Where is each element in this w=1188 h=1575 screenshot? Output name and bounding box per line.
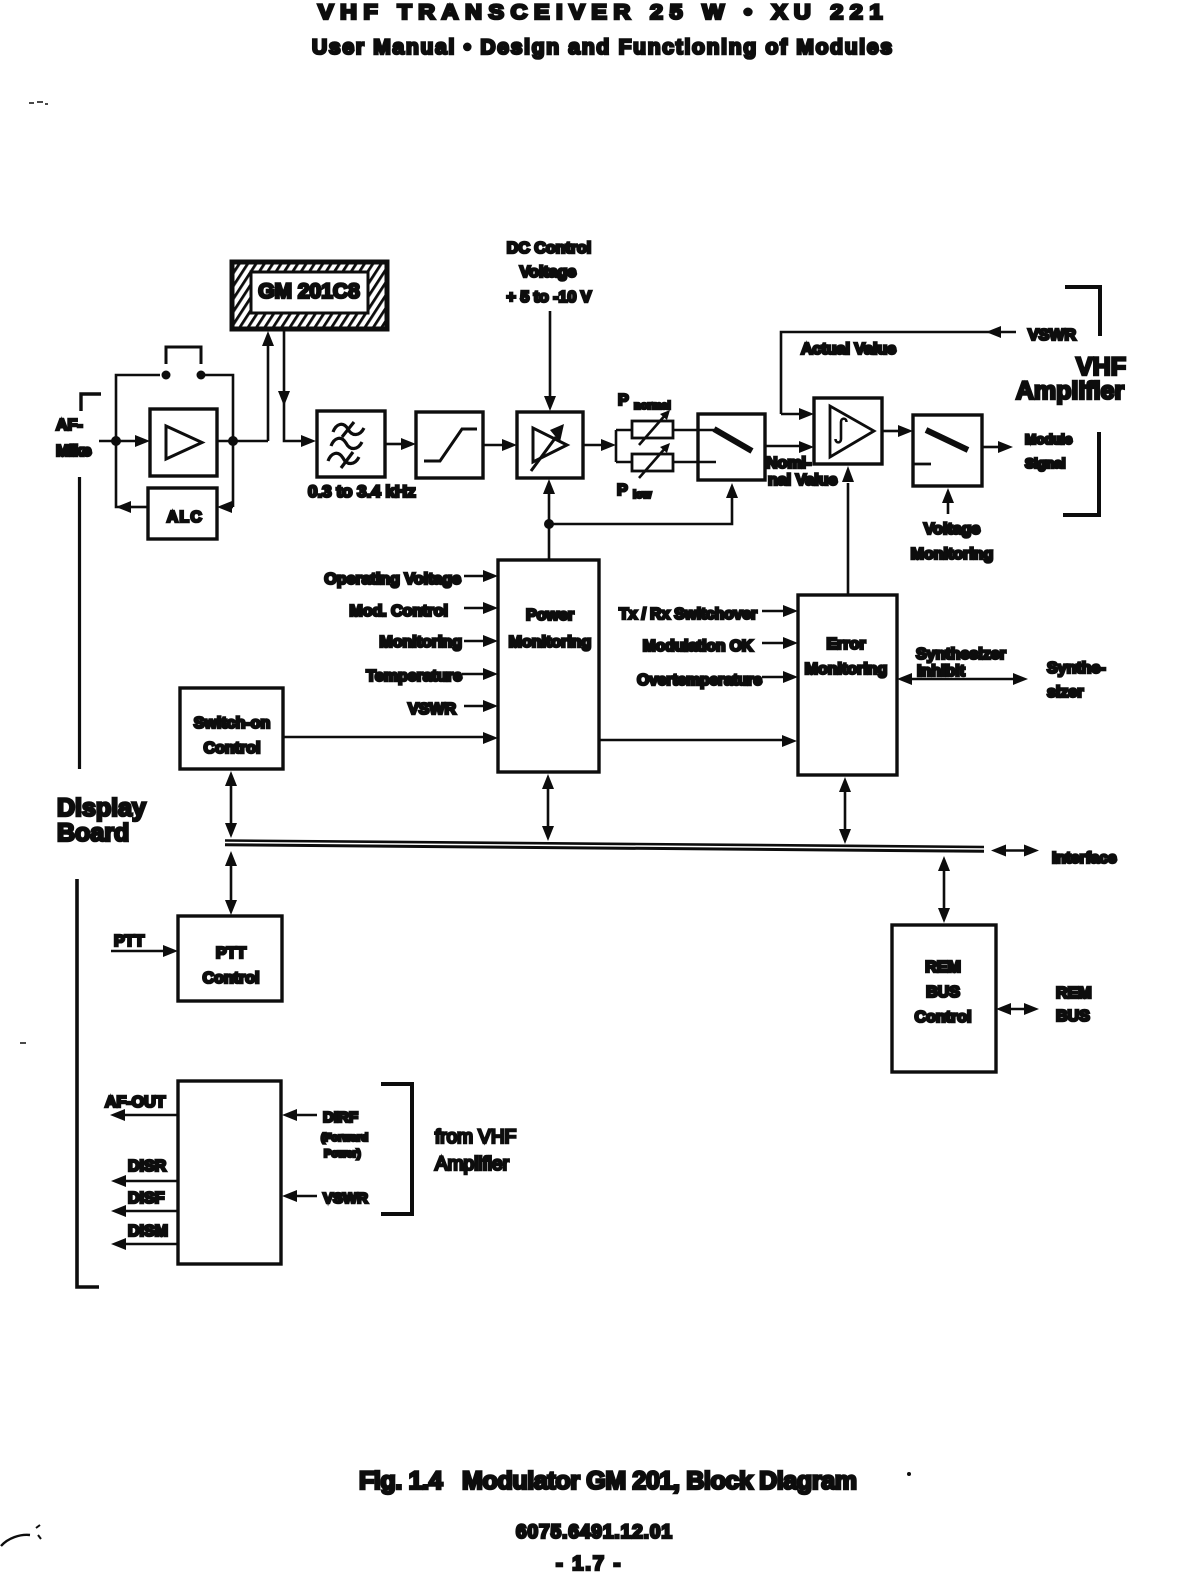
speck left middle [20, 1042, 26, 1044]
speck bottom left pen mark [1, 1525, 41, 1546]
svg-text:REM: REM [1056, 985, 1092, 1002]
figure caption [359, 1467, 857, 1495]
svg-text:Monitoring: Monitoring [509, 634, 592, 651]
svg-text:Overtemperature: Overtemperature [637, 672, 762, 689]
label DISM with arrow [111, 1223, 178, 1250]
wire GM 201C8 down to filter with down arrow [278, 331, 316, 447]
svg-text:- 1.7 -: - 1.7 - [556, 1553, 622, 1575]
wire ALC output back to input with arrow [116, 441, 147, 513]
svg-text:Amplifier: Amplifier [1016, 377, 1125, 405]
label Modulation OK with arrow [643, 637, 798, 655]
label Synthesizer right [1047, 660, 1106, 701]
label Module Signal [1025, 432, 1073, 471]
error monitoring block [798, 595, 897, 775]
label DISR with arrow [111, 1158, 178, 1187]
label Temperature with arrow [366, 668, 498, 685]
label Operating Voltage with arrow [324, 570, 498, 588]
from VHF amplifier bracket [381, 1084, 412, 1214]
svg-text:Mod. Control: Mod. Control [349, 603, 448, 620]
wire DC control into modulator top with arrow [544, 311, 556, 411]
svg-text:AF-OUT: AF-OUT [105, 1094, 166, 1111]
svg-text:DISM: DISM [128, 1223, 168, 1240]
bypass switch right wire [201, 375, 233, 441]
wire power monitoring up into modulator bottom with arrow [543, 479, 555, 524]
svg-text:Control: Control [915, 1009, 972, 1026]
label VSWR top [1028, 327, 1076, 344]
svg-text:Monitoring: Monitoring [805, 661, 888, 678]
bus line lower [225, 845, 984, 852]
svg-text:ALC: ALC [167, 509, 203, 526]
AF-OUT interface block [178, 1081, 281, 1264]
svg-text:Temperature: Temperature [366, 668, 462, 685]
label AF-OUT with arrow [105, 1094, 178, 1121]
svg-text:P: P [617, 482, 628, 499]
label VSWR with arrow [408, 700, 498, 718]
wire P low stub into switch 1 [673, 461, 716, 464]
bypass switch left wire [116, 375, 160, 441]
wire junction down to power monitoring top [548, 524, 551, 560]
resistor P low [632, 443, 673, 478]
svg-text:Amplifier: Amplifier [435, 1154, 510, 1175]
svg-text:Switch-on: Switch-on [194, 715, 270, 732]
label DISF with arrow [111, 1190, 178, 1217]
svg-text:BUS: BUS [1056, 1008, 1090, 1025]
wire power monitoring to error monitoring with arrow [599, 735, 797, 747]
svg-text:DC Control: DC Control [507, 240, 591, 257]
label DIRF (Forward Power) [321, 1109, 368, 1160]
svg-text:BUS: BUS [926, 984, 960, 1001]
wire amplifier output [217, 440, 268, 443]
wire VSWR actual value feedback with arrow [781, 326, 1016, 414]
double arrow error monitoring to bus [839, 777, 851, 844]
svg-text:DIRF: DIRF [323, 1109, 358, 1126]
svg-text:Voltage: Voltage [924, 521, 981, 538]
svg-text:DISF: DISF [128, 1190, 165, 1207]
variable modulator block [517, 412, 583, 478]
svg-text:Fig. 1.4 Modulator GM 201, B: Fig. 1.4 Modulator GM 201, Block Diagram [359, 1467, 857, 1495]
svg-text:Mike: Mike [56, 443, 92, 460]
svg-text:Inhibit: Inhibit [917, 663, 966, 680]
label from VHF Amplifier [435, 1127, 516, 1175]
wire voltage monitoring up into switch 2 with arrow [942, 488, 954, 514]
AF input corner bracket [81, 394, 101, 411]
double arrow power monitoring to bus [542, 774, 554, 841]
label Display Board [57, 794, 146, 847]
double arrow switch-on control to bus [225, 771, 237, 838]
svg-text:DISR: DISR [128, 1158, 167, 1175]
svg-text:P: P [618, 392, 629, 409]
svg-text:Power): Power) [324, 1148, 361, 1160]
label PTT [114, 933, 144, 950]
wire PTT into PTT control with arrow [111, 945, 178, 957]
connector GM 201C8 (hatched box) [232, 262, 387, 329]
svg-text:nal Value: nal Value [768, 472, 837, 489]
svg-text:VSWR: VSWR [408, 701, 456, 718]
bypass switch contact dots [162, 371, 206, 380]
svg-text:Signal: Signal [1025, 456, 1066, 471]
svg-text:sizer: sizer [1047, 684, 1083, 701]
wire error monitoring up to integrator with arrow [842, 466, 854, 595]
svg-text:Modulation OK: Modulation OK [643, 638, 754, 655]
svg-text:Power: Power [526, 607, 574, 624]
svg-text:REM: REM [925, 959, 961, 976]
junction input node [111, 436, 121, 446]
amplifier block [150, 409, 217, 476]
double arrow bus to REM BUS control [938, 856, 950, 923]
wire module signal output with arrow [982, 441, 1013, 453]
REM BUS double arrow [996, 1003, 1039, 1015]
svg-text:normal: normal [634, 400, 671, 412]
switch 2 block [913, 415, 982, 486]
power setting branch wires [616, 430, 632, 462]
label AF-Mike [56, 417, 92, 460]
REM BUS control block [892, 925, 996, 1072]
svg-text:from VHF: from VHF [435, 1127, 516, 1148]
PTT control block [178, 916, 282, 1001]
svg-text:Monitoring: Monitoring [379, 634, 462, 651]
bandpass filter block [317, 411, 385, 477]
svg-text:Nomi-: Nomi- [766, 455, 811, 472]
svg-text:PTT: PTT [216, 945, 246, 962]
wire filter to limiter with arrow [385, 438, 416, 450]
VHF Amplifier bracket top [1065, 287, 1100, 336]
label P normal [618, 392, 671, 412]
integrator block [814, 398, 882, 464]
page title [318, 1, 889, 24]
svg-text:Error: Error [826, 636, 865, 653]
wire amp output up to GM 201C8 with arrow [262, 331, 274, 441]
svg-text:Interface: Interface [1052, 850, 1117, 867]
wire DIRF into block with arrow [282, 1109, 317, 1121]
svg-text:Monitoring: Monitoring [911, 546, 994, 563]
svg-text:Tx / Rx Switchover: Tx / Rx Switchover [619, 606, 757, 623]
svg-text:GM 201C8: GM 201C8 [258, 280, 360, 303]
label DC Control Voltage [507, 240, 592, 306]
svg-text:AF-: AF- [56, 417, 83, 434]
svg-text:low: low [633, 489, 652, 501]
bypass switch bracket [166, 347, 201, 364]
junction below modulator [544, 519, 554, 529]
VHF Amplifier bracket bottom [1063, 432, 1099, 515]
label VSWR bottom [323, 1190, 368, 1207]
display board bracket upper [78, 477, 81, 769]
wire switch 1 to integrator (nominal value) with arrow [765, 441, 814, 453]
svg-text:Synthesizer: Synthesizer [916, 646, 1006, 663]
wire output down to ALC with arrow [217, 441, 233, 513]
page number [556, 1553, 622, 1575]
wire P normal to switch 1 [673, 429, 714, 432]
svg-text:Synthe-: Synthe- [1047, 660, 1106, 677]
document number [516, 1522, 672, 1543]
label 0.3 to 3.4 kHz [308, 482, 416, 501]
wire AF-Mike to amplifier with arrow [99, 435, 150, 447]
svg-text:(Forward: (Forward [321, 1132, 368, 1144]
svg-text:Board: Board [57, 819, 129, 847]
svg-text:Actual Value: Actual Value [801, 341, 896, 358]
wire junction to switch 1 bottom with arrow [549, 483, 738, 524]
switch 1 block [698, 414, 765, 480]
speck top left [29, 102, 48, 104]
svg-text:Operating Voltage: Operating Voltage [324, 571, 461, 588]
label Mod. Control with arrow [349, 602, 498, 620]
double arrow bus to PTT control [225, 851, 237, 915]
speck near caption [907, 1472, 911, 1476]
label Actual Value [801, 341, 896, 358]
label REM BUS right [1056, 985, 1092, 1025]
label P low [617, 482, 652, 501]
svg-text:Control: Control [203, 970, 260, 987]
svg-text:VSWR: VSWR [1028, 327, 1076, 344]
interface double arrow [991, 845, 1039, 857]
label Interface [1052, 850, 1117, 867]
label Overtemperature with arrow [637, 671, 798, 689]
svg-text:VSWR: VSWR [323, 1190, 368, 1207]
wire synthesizer inhibit double arrow [897, 673, 1028, 685]
power monitoring block [498, 560, 599, 772]
page subtitle [312, 36, 892, 59]
wire modulator to power setting with arrow [583, 439, 616, 451]
junction output node [228, 436, 238, 446]
svg-text:6075.6491.12.01: 6075.6491.12.01 [516, 1522, 672, 1543]
svg-text:Control: Control [204, 740, 261, 757]
svg-text:0.3 to 3.4 kHz: 0.3 to 3.4 kHz [308, 482, 416, 501]
wire VSWR into block with arrow [282, 1190, 317, 1202]
wire actual value into integrator with arrow [781, 408, 814, 420]
label Nominal Value [766, 455, 837, 489]
switch-on control block [180, 688, 283, 769]
svg-text:+ 5 to -10 V: + 5 to -10 V [507, 289, 592, 306]
svg-text:Display: Display [57, 794, 146, 822]
svg-text:User Manual • Design and Funct: User Manual • Design and Functioning of … [312, 36, 892, 59]
resistor P normal [632, 410, 673, 445]
svg-text:Voltage: Voltage [520, 264, 577, 281]
bus line upper [225, 841, 984, 848]
ALC block [148, 488, 217, 539]
svg-text:Module: Module [1025, 432, 1073, 447]
svg-text:PTT: PTT [114, 933, 144, 950]
label Synthesizer Inhibit [916, 646, 1006, 680]
limiter block [416, 412, 483, 478]
label Monitoring with arrow [379, 634, 498, 651]
label Voltage Monitoring [911, 521, 994, 563]
label Tx / Rx Switchover with arrow [619, 605, 798, 623]
svg-text:VHF TRANSCEIVER 25 W • XU 221: VHF TRANSCEIVER 25 W • XU 221 [318, 1, 889, 24]
label VHF Amplifier [1016, 353, 1126, 405]
display board bracket lower [77, 879, 99, 1287]
wire limiter to modulator with arrow [483, 439, 517, 451]
wire integrator to switch 2 with arrow [882, 425, 913, 437]
wire switch-on control to power monitoring with arrow [283, 732, 498, 744]
